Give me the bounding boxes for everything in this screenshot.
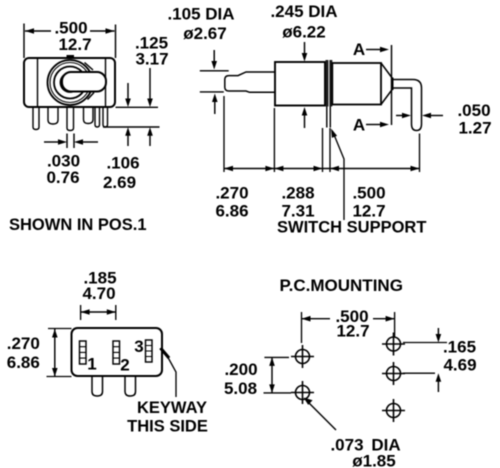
front body top tick <box>67 55 75 59</box>
dim .185 extension lines <box>81 305 116 320</box>
dim .073 leader <box>308 402 336 430</box>
dim .030 left arrow <box>44 141 59 143</box>
hole R2 <box>382 362 405 385</box>
svg-text:6.86: 6.86 <box>215 202 248 221</box>
front pin 3a <box>95 107 100 127</box>
svg-text:0.76: 0.76 <box>46 168 79 187</box>
dim .200 extension lines <box>264 357 292 393</box>
svg-text:12.7: 12.7 <box>336 322 369 341</box>
svg-text:ø1.85: ø1.85 <box>352 452 395 468</box>
A bottom arrow <box>366 124 381 126</box>
svg-text:1: 1 <box>87 355 96 374</box>
barrel <box>332 63 381 105</box>
extension line body bottom right <box>116 106 159 108</box>
section line A-A <box>391 45 393 125</box>
side body <box>275 62 325 106</box>
dim .125 upper arrow <box>149 68 151 99</box>
dim .270 bottom dimension line <box>54 329 56 377</box>
knob chamfer top <box>85 63 94 71</box>
svg-text:4.70: 4.70 <box>82 284 115 303</box>
hole R1 <box>382 333 405 356</box>
dim .050 right arrow <box>422 113 431 119</box>
svg-text:.500: .500 <box>352 184 385 203</box>
svg-text:1.27: 1.27 <box>458 119 491 138</box>
svg-text:6.86: 6.86 <box>7 353 40 372</box>
dim .500/12.7 front: left arrowhead <box>25 28 34 34</box>
dim .106 lower arrow <box>125 127 131 136</box>
cone tip flat <box>392 78 394 91</box>
hole L2 <box>291 381 314 404</box>
plunger tip extension line bottom <box>200 91 224 93</box>
svg-text:P.C.MOUNTING: P.C.MOUNTING <box>280 276 403 295</box>
svg-text:ø2.67: ø2.67 <box>183 24 226 43</box>
side dim extension line 322.5 <box>322 128 324 172</box>
svg-text:.165: .165 <box>443 338 476 357</box>
front pin 2 <box>67 107 74 131</box>
dim .050 left arrow <box>396 115 402 117</box>
switch support leader <box>333 131 345 220</box>
dia 6.22 upper arrow <box>304 42 306 54</box>
side chain dimension line <box>224 168 420 170</box>
svg-text:.106: .106 <box>106 154 139 173</box>
dim .165 extension lines <box>403 343 447 374</box>
front pin 1 <box>33 107 39 130</box>
svg-text:3.17: 3.17 <box>135 50 168 69</box>
pin slot 2 <box>113 341 120 364</box>
svg-text:.270: .270 <box>215 184 248 203</box>
svg-text:A: A <box>353 40 365 59</box>
svg-text:.050: .050 <box>457 101 490 120</box>
bottom peg 2 <box>125 376 136 396</box>
dia 2.67 lower arrow <box>212 94 218 103</box>
cone <box>381 63 393 105</box>
svg-text:A: A <box>353 116 365 135</box>
svg-text:SWITCH SUPPORT: SWITCH SUPPORT <box>277 219 426 237</box>
dim .185 dimension line <box>81 311 116 313</box>
svg-text:.288: .288 <box>281 184 314 203</box>
keyway leader <box>168 358 176 398</box>
support wire hook <box>393 80 422 131</box>
support band legs <box>327 107 331 128</box>
svg-text:THIS SIDE: THIS SIDE <box>127 418 208 436</box>
svg-text:5.08: 5.08 <box>224 379 257 398</box>
actuator C-ring inner <box>61 73 80 92</box>
bushing outer circle <box>48 60 93 105</box>
hole R3 <box>382 399 405 422</box>
dim .500 pc extension lines <box>302 312 395 343</box>
front peg 2 <box>84 107 94 124</box>
hole L1 <box>291 345 314 368</box>
plunger tip extension line top <box>200 70 229 72</box>
pin slot 1 <box>80 341 87 364</box>
svg-text:.200: .200 <box>224 360 257 379</box>
keyway notch <box>161 348 170 358</box>
svg-text:KEYWAY: KEYWAY <box>137 399 207 417</box>
front pin 3b <box>103 107 108 127</box>
dim .500/12.7 front: dimension line left <box>25 30 51 32</box>
dia 2.67 upper arrow <box>213 50 215 62</box>
svg-text:.105 DIA: .105 DIA <box>167 5 234 24</box>
front view body <box>24 58 115 107</box>
side dim extension line 274.4 <box>273 108 275 172</box>
front peg 1 <box>48 107 58 124</box>
bottom peg 1 <box>92 376 103 396</box>
dim .106 upper arrow <box>127 83 129 99</box>
knob chamfer bottom <box>88 93 95 100</box>
dim .500/12.7 front: right extension line <box>115 25 117 59</box>
bottom view body <box>72 328 163 376</box>
front body inner frame lines <box>38 59 106 107</box>
extension line pin tip right <box>103 126 160 128</box>
dim .500/12.7 front: right arrowhead <box>106 28 115 34</box>
dim .500 pc dimension line <box>302 318 395 320</box>
bushing inner circle <box>50 63 90 103</box>
side dim extension line 419.5 <box>419 134 421 173</box>
pin slot 3 <box>146 340 153 362</box>
svg-text:.270: .270 <box>7 334 40 353</box>
toggle knob <box>62 72 106 92</box>
dim .125 lower arrow <box>147 127 153 136</box>
svg-text:SHOWN IN POS.1: SHOWN IN POS.1 <box>9 216 147 234</box>
side dim extension line 330 <box>329 128 331 172</box>
dim .270 bottom extension lines <box>47 329 72 377</box>
support band <box>326 60 333 107</box>
svg-text:2.69: 2.69 <box>103 173 136 192</box>
svg-text:3: 3 <box>134 337 143 356</box>
dim .165 bottom arrow <box>436 373 442 382</box>
svg-text:.245 DIA: .245 DIA <box>270 2 337 21</box>
A top arrow <box>366 49 381 51</box>
dim .200 dimension line <box>271 357 273 393</box>
dim .500/12.7 front: left extension line <box>23 24 25 59</box>
plunger <box>225 72 275 92</box>
svg-text:ø6.22: ø6.22 <box>282 23 325 42</box>
svg-text:12.7: 12.7 <box>58 35 91 54</box>
dim .500/12.7 front: dimension line right <box>90 30 115 32</box>
svg-text:2: 2 <box>120 356 129 375</box>
chain arrowheads <box>224 166 233 172</box>
dim .030 extension lines <box>67 134 74 149</box>
side dim extension line 224 <box>223 96 225 172</box>
dia 6.22 lower arrow <box>302 107 308 116</box>
actuator C-ring outer <box>54 67 86 99</box>
svg-text:4.69: 4.69 <box>443 356 476 375</box>
dim .165 top arrow <box>437 328 439 334</box>
dim .030 right arrow <box>82 141 98 143</box>
